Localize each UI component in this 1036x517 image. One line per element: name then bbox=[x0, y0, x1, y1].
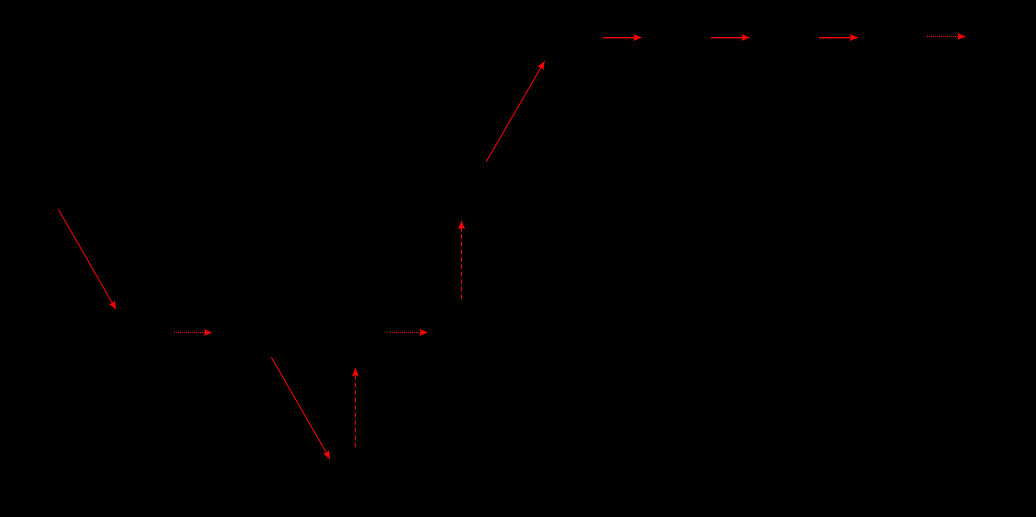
wire: solid red arrow, upper-left, pointing down-right bbox=[58, 209, 116, 309]
wire: solid red arrow, centre diagonal, pointing up-right bbox=[486, 61, 544, 162]
wire: solid red arrow, lower-middle, pointing down-right bbox=[271, 357, 330, 459]
wire: dotted red arrow, middle row second, pointing right bbox=[390, 332, 428, 334]
wire: densely dotted red arrow, top row 1, pointing right bbox=[603, 37, 641, 40]
wire: dashed red arrow, vertical bottom, pointing up bbox=[354, 368, 356, 447]
wire: densely dotted red arrow, top row 3, pointing right bbox=[819, 37, 858, 40]
wire: dotted red arrow, top row 4, pointing right bbox=[927, 36, 966, 38]
wire: dashed red arrow, vertical centre, pointing up bbox=[461, 221, 463, 299]
wire: densely dotted red arrow, top row 2, pointing right bbox=[711, 37, 749, 40]
wire: dotted red arrow, left-middle row, pointing right bbox=[174, 332, 212, 334]
